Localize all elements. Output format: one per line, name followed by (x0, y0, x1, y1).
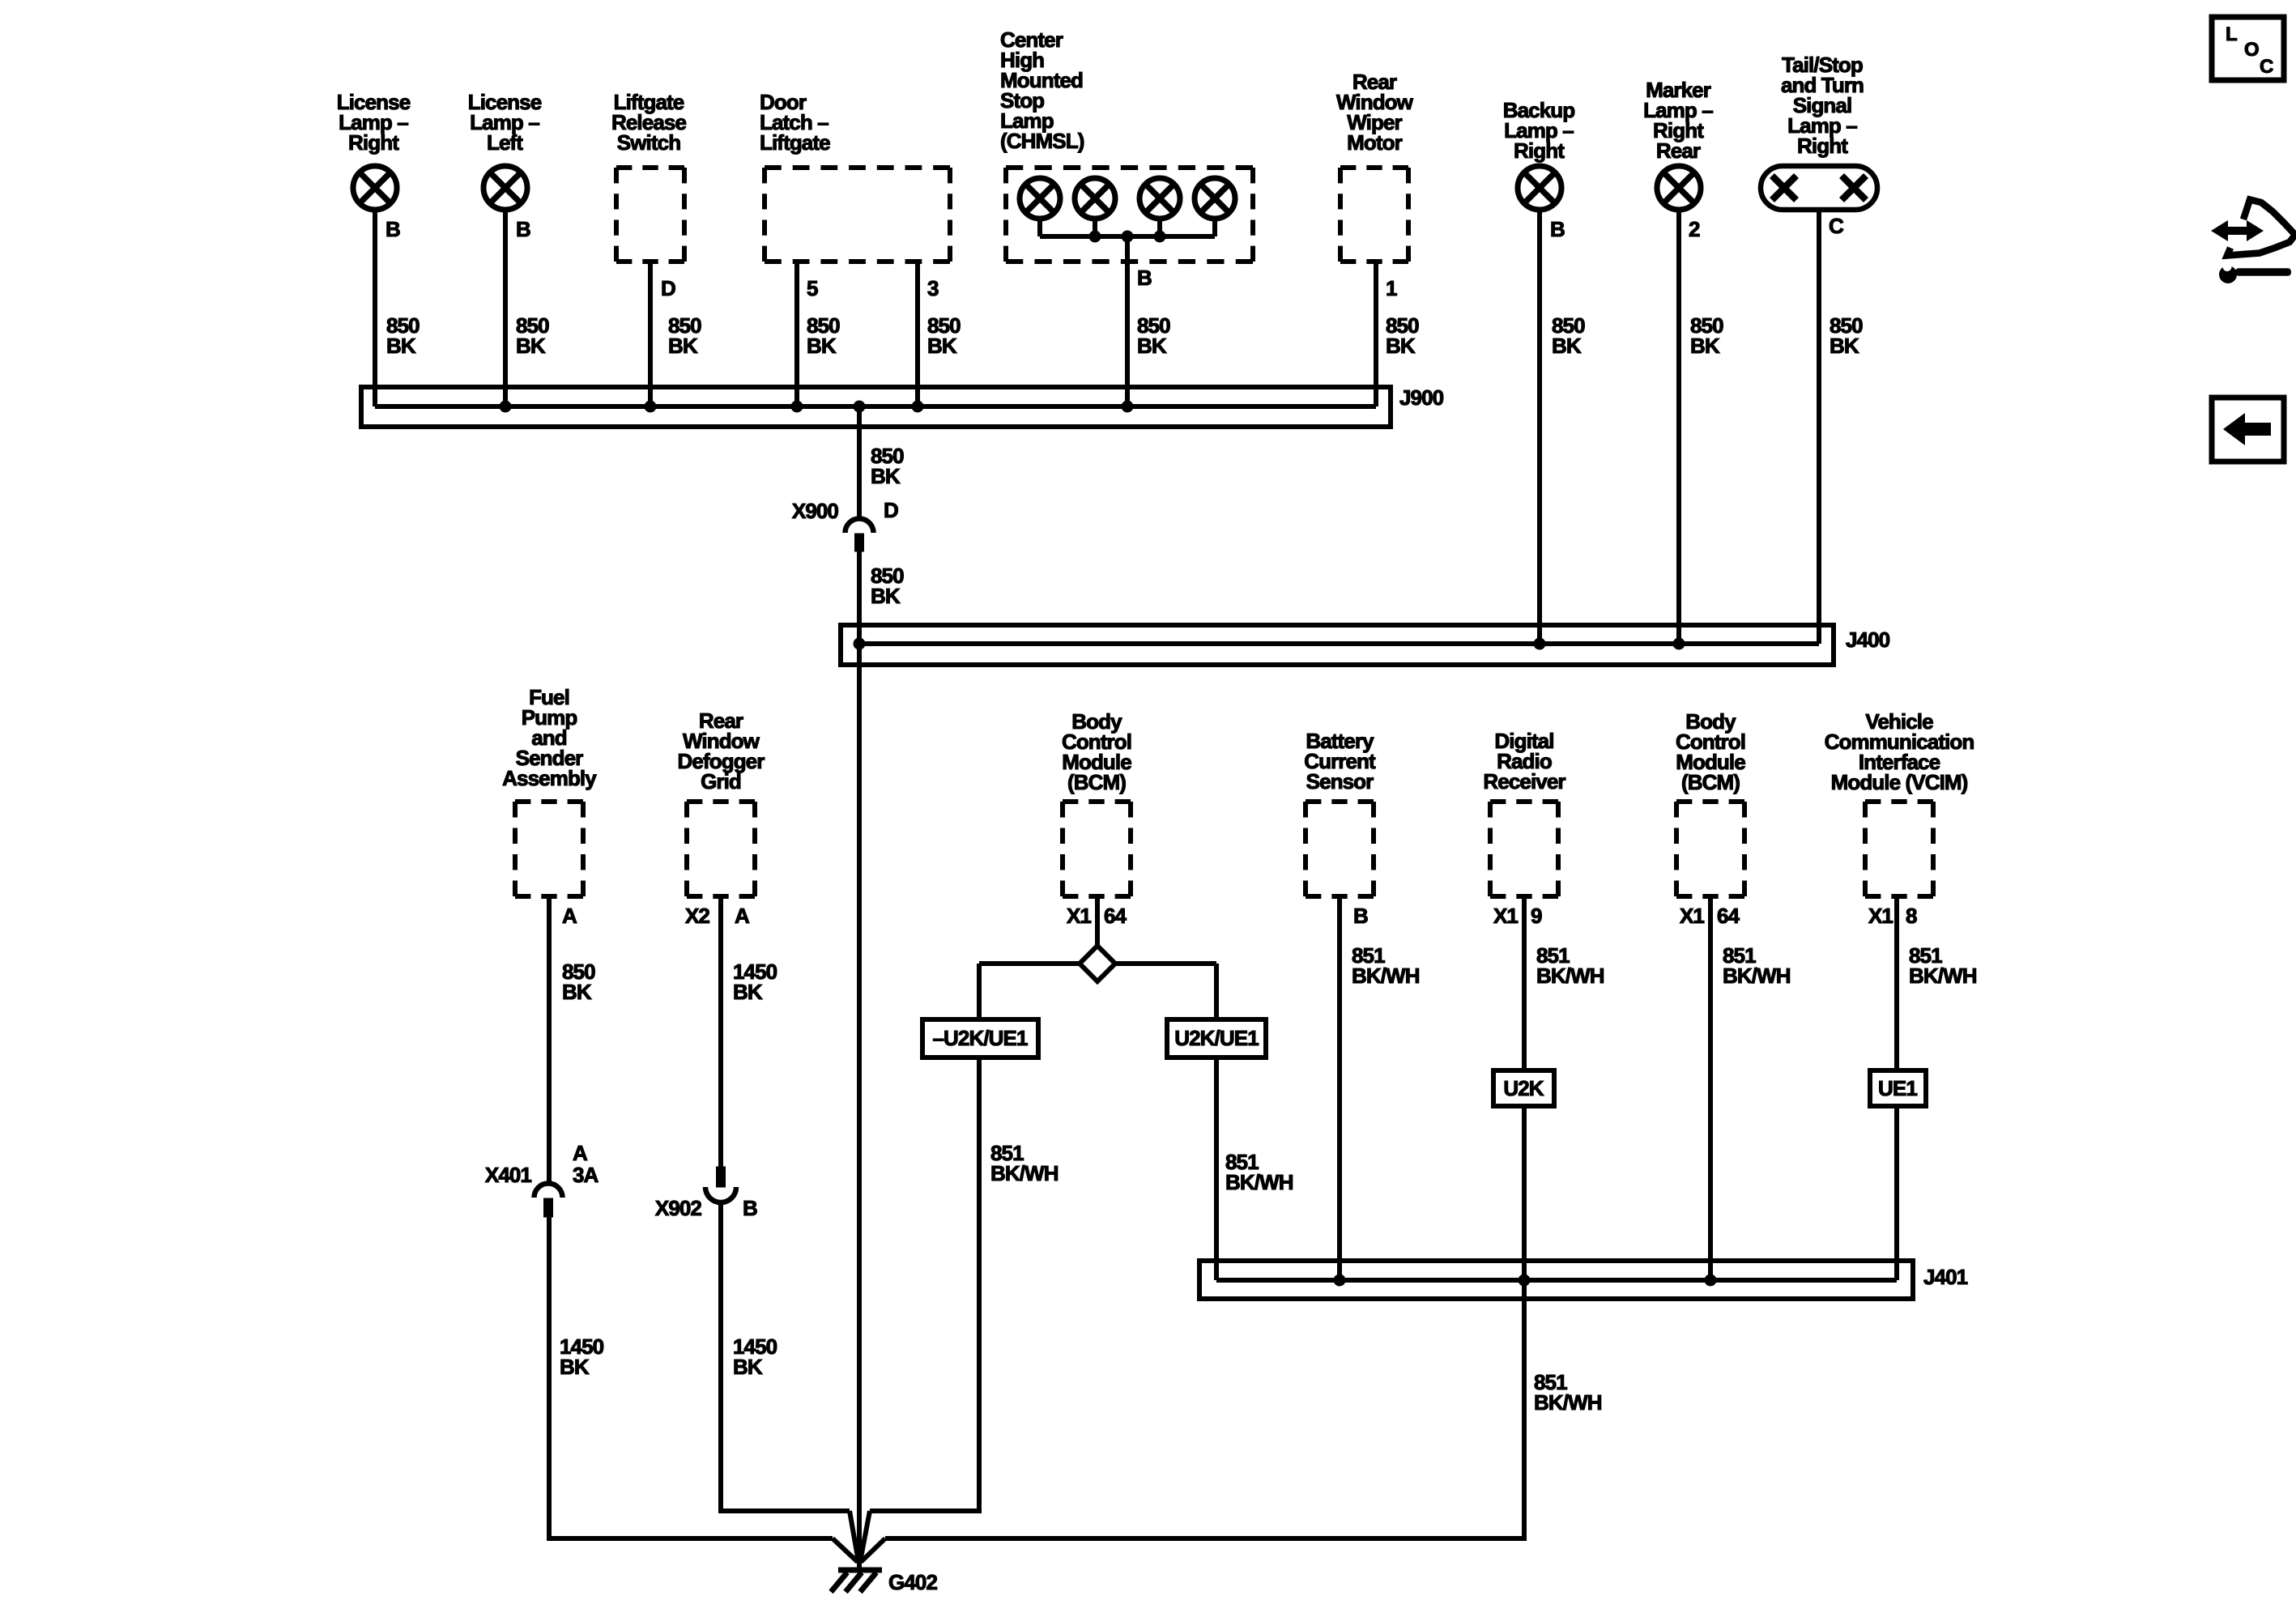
svg-text:BodyControlModule(BCM): BodyControlModule(BCM) (1062, 709, 1131, 794)
svg-text:G402: G402 (888, 1570, 937, 1594)
svg-text:X1: X1 (1680, 904, 1704, 928)
svg-text:B: B (1550, 217, 1565, 241)
svg-text:U2K/UE1: U2K/UE1 (1174, 1026, 1259, 1050)
svg-text:B: B (743, 1196, 757, 1220)
svg-text:A: A (562, 904, 577, 928)
svg-text:5: 5 (807, 276, 818, 300)
svg-text:D: D (661, 276, 675, 300)
svg-text:X401: X401 (485, 1163, 532, 1187)
svg-text:850BK: 850BK (1386, 313, 1419, 358)
svg-text:X900: X900 (792, 499, 839, 523)
svg-text:BatteryCurrentSensor: BatteryCurrentSensor (1304, 729, 1376, 794)
svg-text:850BK: 850BK (1552, 313, 1585, 358)
svg-text:O: O (2244, 39, 2259, 61)
svg-text:850BK: 850BK (562, 960, 595, 1004)
svg-text:X2: X2 (685, 904, 709, 928)
svg-text:850BK: 850BK (668, 313, 701, 358)
svg-text:8: 8 (1906, 904, 1917, 928)
svg-text:C: C (1829, 214, 1844, 238)
svg-text:C: C (2260, 56, 2273, 78)
svg-text:64: 64 (1104, 904, 1127, 928)
svg-text:X902: X902 (655, 1196, 702, 1220)
svg-text:BodyControlModule(BCM): BodyControlModule(BCM) (1676, 709, 1745, 794)
svg-text:2: 2 (1689, 217, 1700, 241)
svg-text:J401: J401 (1923, 1265, 1968, 1289)
svg-text:L: L (2226, 23, 2237, 45)
svg-text:X1: X1 (1067, 904, 1091, 928)
svg-text:D: D (884, 498, 898, 522)
svg-text:A: A (573, 1141, 588, 1165)
svg-text:850BK: 850BK (1690, 313, 1723, 358)
svg-text:J900: J900 (1399, 385, 1444, 410)
svg-text:9: 9 (1531, 904, 1542, 928)
svg-text:850BK: 850BK (927, 313, 961, 358)
svg-text:850BK: 850BK (1830, 313, 1863, 358)
svg-text:B: B (1137, 266, 1152, 290)
svg-text:X1: X1 (1868, 904, 1893, 928)
svg-text:850BK: 850BK (386, 313, 420, 358)
svg-text:J400: J400 (1846, 628, 1890, 652)
svg-text:850BK: 850BK (516, 313, 549, 358)
svg-text:LiftgateReleaseSwitch: LiftgateReleaseSwitch (611, 90, 686, 155)
svg-text:850BK: 850BK (871, 564, 904, 608)
svg-text:B: B (516, 217, 530, 241)
svg-text:–U2K/UE1: –U2K/UE1 (932, 1026, 1028, 1050)
svg-text:B: B (386, 217, 400, 241)
svg-text:850BK: 850BK (1137, 313, 1170, 358)
svg-text:U2K: U2K (1503, 1076, 1544, 1100)
svg-text:X1: X1 (1493, 904, 1518, 928)
svg-text:1: 1 (1386, 276, 1397, 300)
svg-text:UE1: UE1 (1878, 1076, 1917, 1100)
svg-text:B: B (1353, 904, 1368, 928)
svg-text:3A: 3A (573, 1163, 599, 1187)
svg-text:850BK: 850BK (807, 313, 840, 358)
svg-text:3: 3 (927, 276, 939, 300)
svg-text:850BK: 850BK (871, 444, 904, 488)
svg-text:A: A (735, 904, 750, 928)
svg-text:64: 64 (1717, 904, 1740, 928)
